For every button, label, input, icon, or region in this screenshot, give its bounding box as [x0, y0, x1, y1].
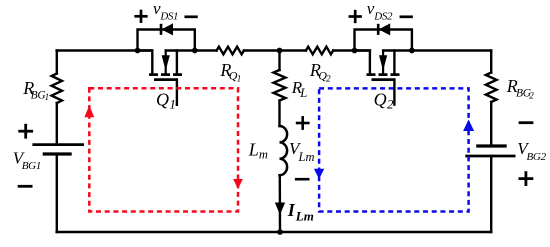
plus sign of v_DS2: [350, 11, 361, 22]
wire top-left horizontal (node D1 rail): [57, 49, 153, 51]
plus sign of V_BG2: [520, 173, 532, 185]
current arrow I_Lm: [276, 203, 285, 214]
transistor Q1 channel segments: [149, 73, 158, 76]
svg-text:1: 1: [45, 92, 50, 102]
blue loop arrow down (left edge): [314, 169, 324, 179]
resistor R_Q1: [217, 47, 244, 55]
resistor R_BG2: [486, 73, 497, 103]
junction node bottom middle: [277, 229, 283, 235]
wire right vertical lower: [490, 156, 492, 232]
svg-text:DS2: DS2: [373, 11, 393, 23]
minus sign of V_Lm: [296, 178, 308, 181]
wire left vertical to battery: [56, 103, 58, 145]
svg-text:2: 2: [326, 73, 331, 83]
svg-text:I: I: [287, 200, 296, 220]
wire bottom rail: [57, 231, 492, 233]
transistor Q2 gate bar: [372, 78, 396, 81]
svg-text:L: L: [248, 139, 259, 159]
transistor Q2 body arrow: [382, 51, 384, 75]
minus sign of V_BG2: [520, 121, 532, 124]
plus sign of v_DS1: [136, 11, 147, 22]
wire top between R_Q2 and Q2 drain: [333, 49, 370, 51]
wire top middle node: [244, 49, 306, 51]
svg-text:Q: Q: [156, 90, 169, 110]
wire middle branch top stub: [278, 51, 280, 71]
diode D2 cathode bar: [377, 24, 380, 35]
transistor Q2 source lead: [383, 49, 412, 51]
junction node Q2 drain: [352, 48, 358, 54]
wire left vertical lower: [56, 154, 58, 232]
junction node Q2 source: [409, 48, 415, 54]
wire right vertical upper: [490, 51, 492, 73]
battery V_BG1 positive plate: [32, 143, 84, 146]
resistor R_L: [274, 70, 286, 101]
diode D2 triangle: [380, 24, 390, 34]
transistor Q2 drain lead: [355, 51, 370, 74]
svg-text:DS1: DS1: [159, 11, 178, 23]
transistor Q1 gate bar: [154, 78, 178, 81]
svg-text:BG1: BG1: [22, 160, 41, 172]
svg-text:Lm: Lm: [295, 208, 314, 223]
svg-text:Lm: Lm: [298, 150, 315, 164]
transistor Q1 body arrow: [165, 51, 167, 75]
red loop arrow down (right edge): [233, 179, 243, 189]
diode D1 cathode bar: [160, 24, 163, 35]
battery V_BG2 positive plate: [465, 155, 515, 158]
diode D1 triangle: [162, 24, 172, 34]
wire top between Q2 source and right corner: [412, 49, 491, 51]
transistor Q2 gate lead: [393, 80, 395, 105]
plus sign of V_Lm: [297, 117, 308, 128]
junction node middle top: [277, 48, 283, 54]
wire between R_L and L_m: [278, 101, 280, 127]
battery V_BG2 negative plate: [476, 144, 507, 147]
transistor Q1 gate lead: [176, 80, 178, 105]
svg-text:m: m: [259, 147, 268, 161]
transistor Q1 source lead: [166, 49, 195, 51]
svg-text:L: L: [299, 86, 307, 100]
transistor Q2 channel segments: [367, 73, 376, 76]
svg-text:1: 1: [169, 97, 176, 112]
blue dashed loop i_BG2: [319, 88, 469, 211]
minus sign of v_DS1: [186, 15, 197, 18]
red loop arrow up (left edge): [84, 105, 94, 117]
svg-text:Q: Q: [374, 90, 387, 110]
wire right vertical to battery: [490, 102, 492, 146]
minus sign of v_DS2: [401, 15, 412, 18]
red dashed loop i_BG1: [89, 88, 238, 211]
blue loop arrow up (right edge): [463, 120, 474, 132]
wire top between Q1 source and R_Q1: [195, 49, 217, 51]
svg-text:2: 2: [387, 97, 394, 112]
svg-text:1: 1: [237, 73, 242, 83]
minus sign of V_BG1: [19, 185, 31, 188]
wire left vertical upper: [56, 51, 58, 74]
junction node Q1 drain: [135, 48, 141, 54]
wire below L_m to bottom rail: [279, 175, 282, 232]
inductor L_m: [280, 126, 288, 175]
plus sign of V_BG1: [20, 125, 32, 137]
junction node Q1 source: [192, 48, 198, 54]
resistor R_Q2: [306, 47, 333, 55]
body diode loop of Q1: [138, 30, 195, 51]
svg-text:BG2: BG2: [527, 151, 547, 163]
svg-text:2: 2: [529, 91, 534, 101]
body diode loop of Q2: [355, 30, 412, 51]
resistor R_BG1: [52, 74, 62, 104]
battery V_BG1 negative plate: [43, 152, 72, 155]
transistor Q1 drain lead: [138, 51, 153, 74]
